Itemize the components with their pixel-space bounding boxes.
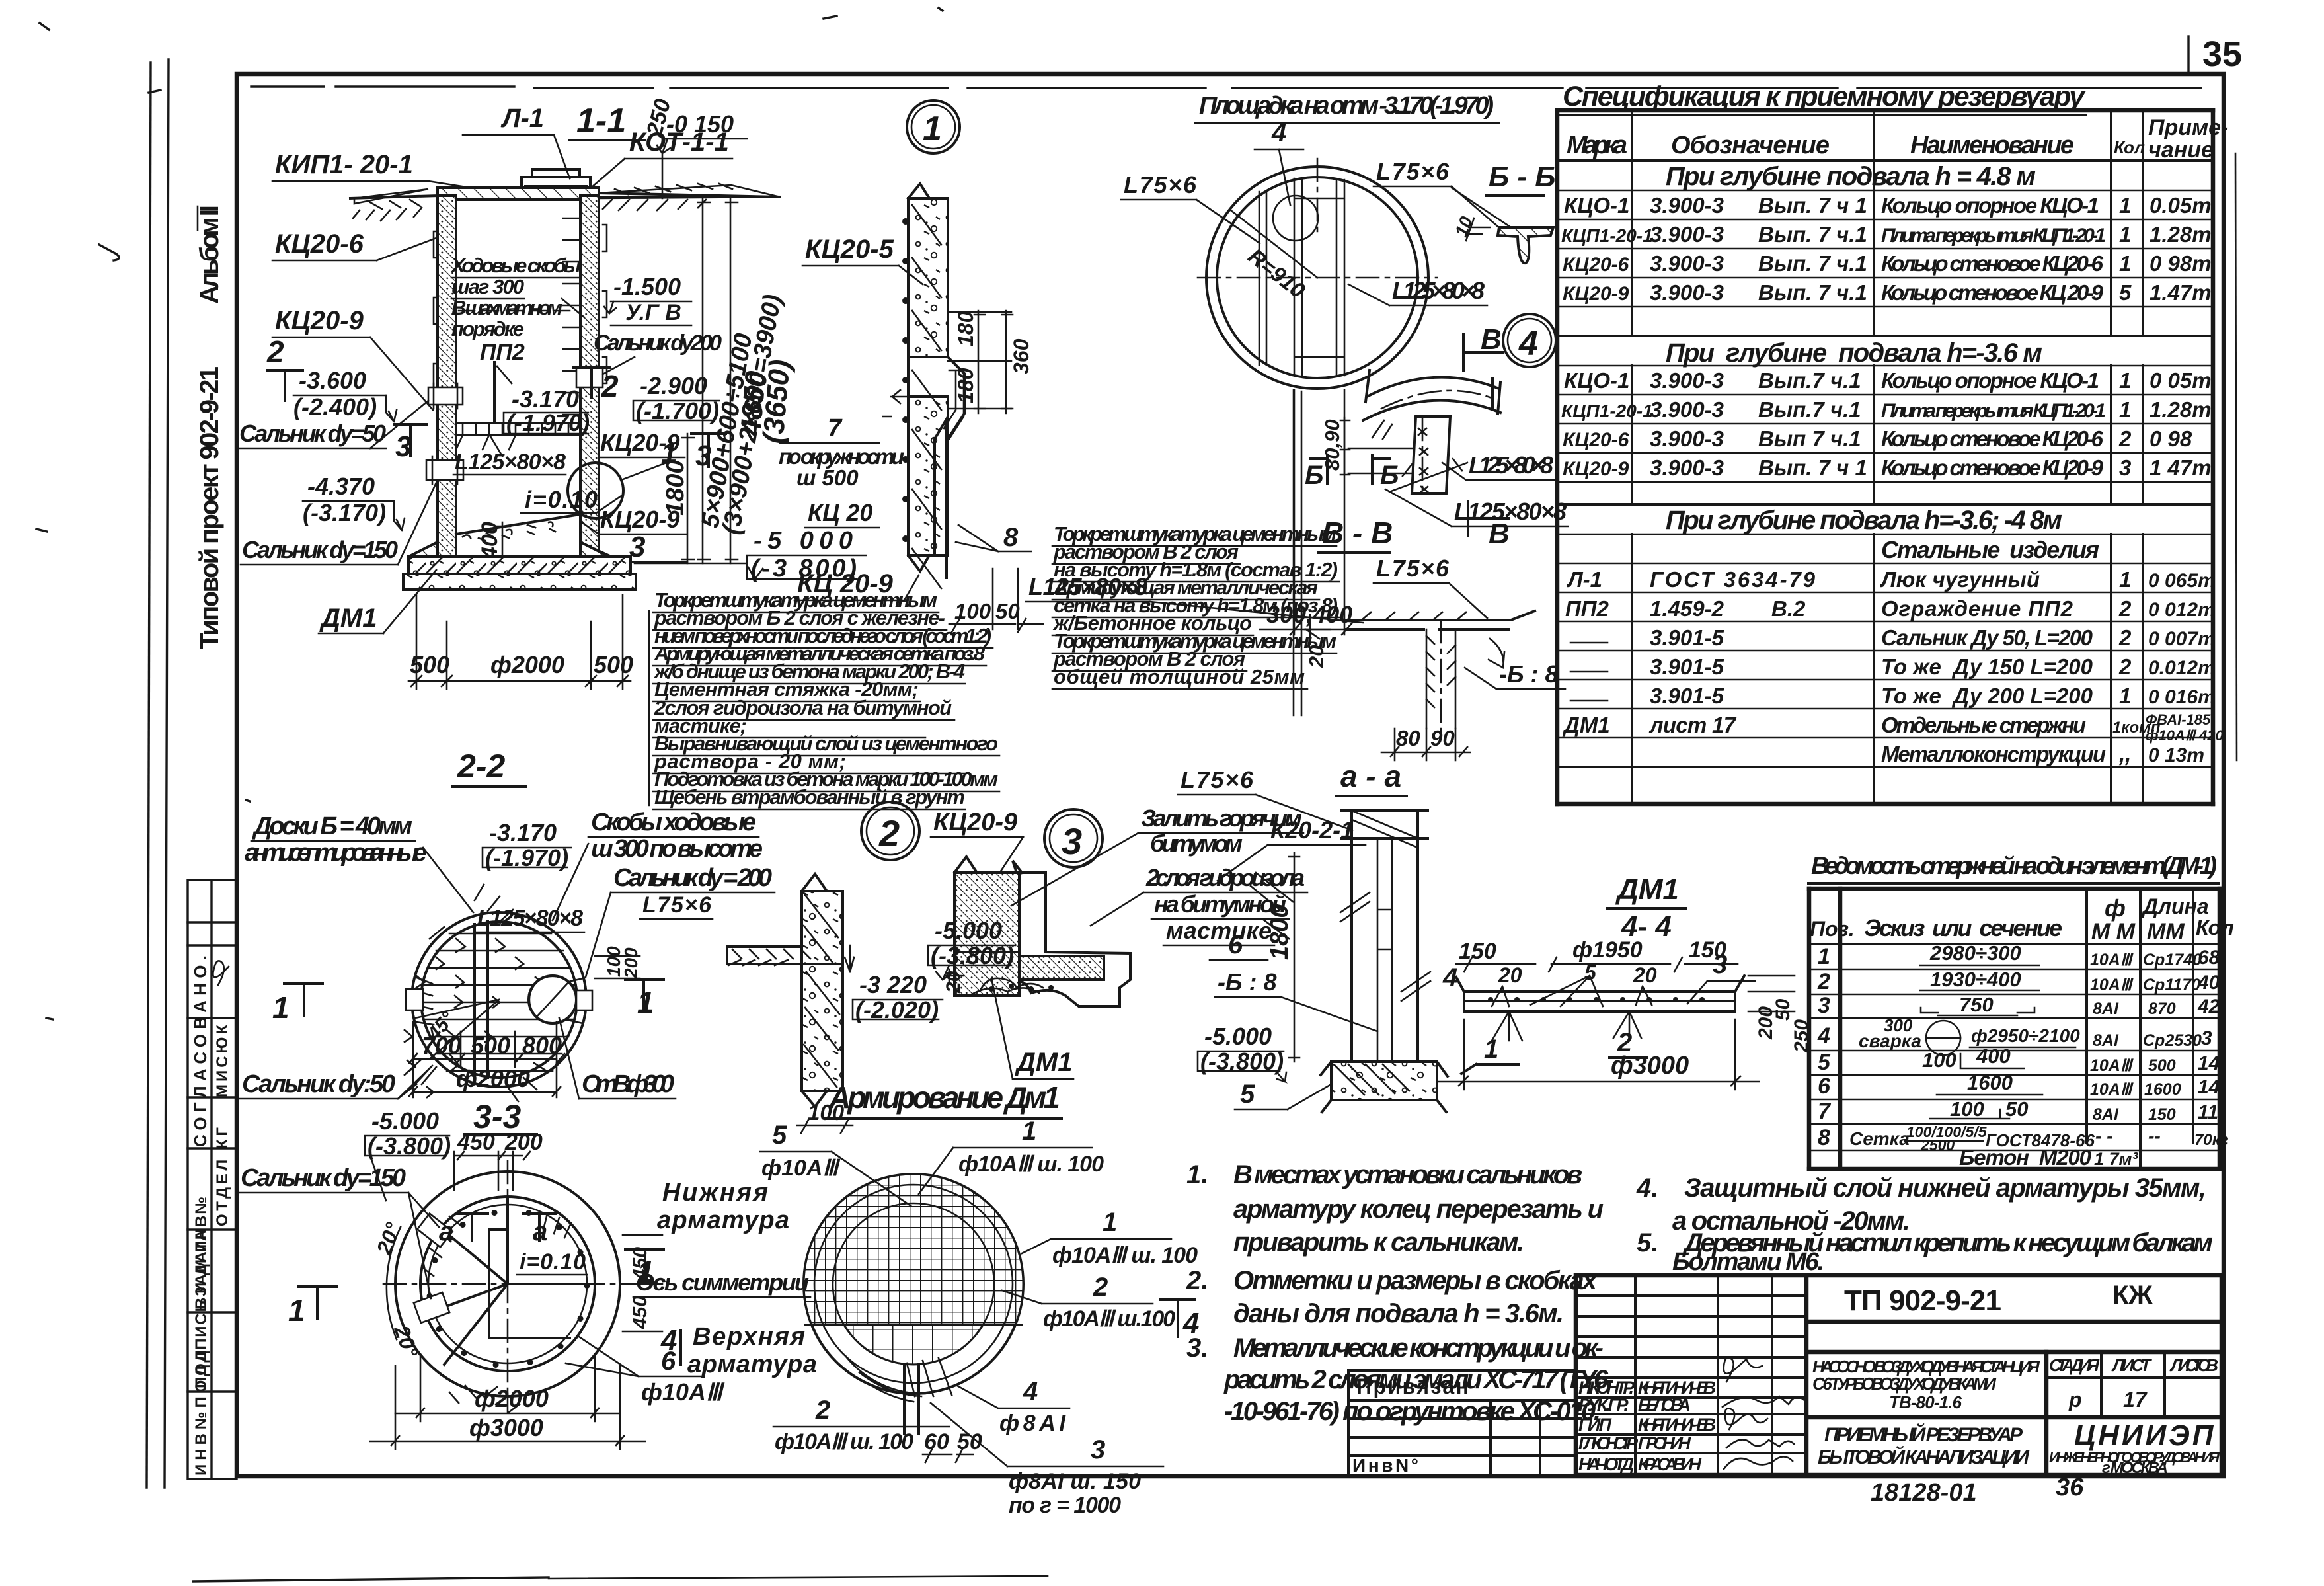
svg-text:М М: М М — [2091, 919, 2136, 944]
bottom concrete — [1331, 1062, 1437, 1100]
svg-text:450: 450 — [457, 1130, 495, 1155]
svg-text:-4.370: -4.370 — [307, 473, 375, 500]
svg-text:Кольцо опорное КЦО-1: Кольцо опорное КЦО-1 — [1881, 193, 2099, 218]
svg-text:арматура: арматура — [687, 1351, 817, 1378]
svg-text:Армирование Дм1: Армирование Дм1 — [828, 1080, 1060, 1115]
svg-text:5: 5 — [1818, 1050, 1831, 1075]
svg-text:Наименование: Наименование — [1910, 132, 2074, 159]
svg-text:КЦ 20: КЦ 20 — [808, 499, 872, 526]
svg-text:2: 2 — [1093, 1273, 1108, 1302]
svg-text:450: 450 — [629, 1296, 651, 1329]
svg-text:4: 4 — [660, 1324, 677, 1357]
glass diag marks — [1251, 873, 1293, 939]
svg-text:3: 3 — [395, 430, 411, 463]
ПП2 ladder post — [493, 362, 496, 423]
svg-text:,,: ,, — [2118, 742, 2131, 766]
svg-text:БЫТОВОЙ КАНАЛИЗАЦИИ: БЫТОВОЙ КАНАЛИЗАЦИИ — [1818, 1445, 2030, 1468]
svg-text:Кольцо стеновое КЦ20-6: Кольцо стеновое КЦ20-6 — [1881, 426, 2104, 451]
svg-text:10АⅢ: 10АⅢ — [2090, 976, 2134, 994]
detail callout circle 1 — [907, 100, 960, 153]
svg-text:i=0.10: i=0.10 — [520, 1249, 586, 1275]
wire: a-a trace lines below circle — [1293, 390, 1295, 715]
svg-text:5: 5 — [2119, 280, 2132, 305]
svg-text:ф1950: ф1950 — [1572, 937, 1643, 963]
svg-text:общей толщиной 25мм: общей толщиной 25мм — [1054, 665, 1305, 688]
svg-text:5: 5 — [1584, 961, 1597, 984]
svg-text:1.: 1. — [1186, 1160, 1208, 1189]
svg-text:10АⅢ: 10АⅢ — [2090, 1080, 2134, 1099]
svg-text:0.012т: 0.012т — [2148, 657, 2216, 679]
svg-text:Вып. 7 ч.1: Вып. 7 ч.1 — [1758, 280, 1867, 305]
platform at -3.170 — [456, 423, 580, 435]
svg-text:ТП 902-9-21: ТП 902-9-21 — [1844, 1285, 2003, 1317]
svg-text:Ходовые скобы: Ходовые скобы — [450, 254, 581, 277]
svg-text:В: В — [1489, 518, 1510, 550]
svg-text:-3 220: -3 220 — [859, 971, 927, 998]
svg-text:2слоя гидроизола: 2слоя гидроизола — [1145, 864, 1305, 891]
svg-text:500: 500 — [2148, 1056, 2176, 1075]
svg-text:КЖ: КЖ — [2112, 1281, 2153, 1310]
svg-text:1: 1 — [1484, 1035, 1498, 1064]
svg-text:Вып 7 ч.1: Вып 7 ч.1 — [1758, 426, 1861, 451]
svg-text:1: 1 — [2119, 251, 2131, 276]
dims right 100 200 — [595, 955, 640, 957]
svg-text:КЦО-1: КЦО-1 — [1564, 193, 1629, 218]
svg-text:2-2: 2-2 — [457, 748, 505, 785]
svg-text:ф10АⅢ ш. 100: ф10АⅢ ш. 100 — [775, 1429, 913, 1454]
svg-text:5.: 5. — [1637, 1228, 1658, 1257]
svg-text:3: 3 — [1091, 1435, 1105, 1464]
svg-text:При глубине подвала h = 4.8 м: При глубине подвала h = 4.8 м — [1666, 162, 2036, 191]
svg-text:То же Ду 150 L=200: То же Ду 150 L=200 — [1881, 654, 2093, 679]
svg-text:по г = 1000: по г = 1000 — [1009, 1493, 1121, 1518]
svg-text:Сальник dy=150: Сальник dy=150 — [241, 1164, 406, 1192]
callout circle 4 — [1503, 314, 1556, 367]
hole ОтВ ф300 — [529, 976, 576, 1023]
radial lines and pit — [428, 1224, 508, 1365]
block B verticals — [1632, 366, 2143, 504]
svg-text:КЦО-1: КЦО-1 — [1564, 368, 1629, 393]
dims below — [412, 1022, 414, 1097]
lower inner circle + coarse mesh — [844, 1325, 983, 1365]
triangle supports + leaders — [1492, 1011, 1641, 1041]
svg-text:60: 60 — [924, 1429, 949, 1454]
svg-text:Вып.7 ч.1: Вып.7 ч.1 — [1758, 368, 1861, 393]
svg-text:ОтВ.ф300: ОтВ.ф300 — [582, 1070, 674, 1098]
svg-text:ФВАΙ-185: ФВАΙ-185 — [2146, 711, 2211, 728]
svg-text:ш 500: ш 500 — [796, 465, 859, 490]
svg-text:СТАДИЯ: СТАДИЯ — [2049, 1355, 2100, 1375]
svg-text:Кол: Кол — [2196, 916, 2234, 939]
svg-text:антисептированные: антисептированные — [245, 839, 427, 867]
svg-text:0 016т: 0 016т — [2148, 686, 2216, 708]
svg-text:Плита перекрытия КЦП1-20-1: Плита перекрытия КЦП1-20-1 — [1881, 225, 2106, 247]
svg-text:14: 14 — [2198, 1076, 2220, 1098]
scan specks — [36, 8, 943, 1019]
svg-text:500: 500 — [410, 651, 449, 678]
svg-text:Л-1: Л-1 — [500, 104, 544, 133]
R=910 radius — [1231, 210, 1317, 278]
shelf slab left — [727, 947, 802, 964]
svg-text:ф2000: ф2000 — [456, 1065, 530, 1092]
svg-text:1: 1 — [1022, 1117, 1036, 1146]
upper mesh half — [804, 1174, 1023, 1325]
svg-text:Сальник dy=50: Сальник dy=50 — [239, 420, 386, 447]
svg-text:ГОСТ 3634-79: ГОСТ 3634-79 — [1650, 567, 1816, 592]
left signature grid — [1576, 1275, 1806, 1475]
svg-text:ИнвN°: ИнвN° — [1352, 1455, 1418, 1476]
svg-text:7: 7 — [1818, 1099, 1832, 1124]
svg-text:-2.900: -2.900 — [640, 372, 707, 399]
svg-text:ф3000: ф3000 — [1611, 1052, 1689, 1080]
svg-text:При глубине подвала h=-3.6 м: При глубине подвала h=-3.6 м — [1666, 338, 2042, 368]
svg-text:3.900-3: 3.900-3 — [1650, 193, 1724, 218]
svg-text:Марка: Марка — [1567, 132, 1627, 159]
svg-text:Сальник Ду 50, L=200: Сальник Ду 50, L=200 — [1881, 625, 2093, 650]
svg-text:1: 1 — [2119, 368, 2131, 393]
svg-text:1 47т: 1 47т — [2150, 456, 2212, 480]
svg-text:Металлоконструкции: Металлоконструкции — [1881, 742, 2106, 766]
callout circle 3 — [1044, 809, 1103, 867]
svg-text:-1.500: -1.500 — [613, 273, 681, 300]
page number 35 — [2187, 36, 2189, 73]
svg-text:360: 360 — [1009, 338, 1033, 374]
svg-text:-5.000: -5.000 — [371, 1107, 439, 1134]
svg-text:1800: 1800 — [662, 459, 689, 516]
svg-text:Кольцо опорное КЦО-1: Кольцо опорное КЦО-1 — [1881, 368, 2099, 393]
svg-text:8АΙ: 8АΙ — [2093, 1000, 2119, 1018]
svg-text:р: р — [2068, 1388, 2082, 1411]
svg-text:68: 68 — [2198, 947, 2220, 969]
svg-text:Вып. 7 ч 1: Вып. 7 ч 1 — [1758, 456, 1867, 480]
svg-text:Скобы ходовые: Скобы ходовые — [591, 809, 756, 836]
right rotated dims 200 50 250 — [1748, 975, 1795, 977]
svg-text:-3.170: -3.170 — [512, 385, 579, 413]
стадия лист листов — [2046, 1352, 2222, 1417]
svg-text:1: 1 — [288, 1293, 305, 1328]
svg-text:ЛИСТ: ЛИСТ — [2111, 1355, 2152, 1375]
svg-text:6: 6 — [1818, 1074, 1831, 1099]
svg-text:КНЯГИНИЧЕВ: КНЯГИНИЧЕВ — [1638, 1415, 1716, 1435]
ladder rungs — [563, 218, 579, 415]
header verticals — [1557, 110, 2213, 336]
svg-text:КЦП1-20-1: КЦП1-20-1 — [1561, 225, 1653, 246]
tall wall element — [1352, 811, 1418, 1062]
ground line + hatch left — [350, 196, 438, 198]
svg-text:Ось симметрии: Ось симметрии — [636, 1269, 809, 1296]
svg-text:(-3.170): (-3.170) — [303, 499, 386, 526]
svg-text:-Б : 8: -Б : 8 — [1499, 660, 1559, 688]
svg-text:В: В — [1481, 323, 1502, 356]
manhole cover — [522, 169, 590, 186]
svg-text:мастике: мастике — [1166, 917, 1272, 944]
svg-text:1.47т: 1.47т — [2150, 280, 2212, 305]
joint bracket mid — [944, 370, 964, 439]
svg-text:6: 6 — [1228, 930, 1243, 959]
svg-text:20: 20 — [943, 971, 964, 994]
svg-text:ф10АⅢ ш. 100: ф10АⅢ ш. 100 — [958, 1152, 1104, 1177]
dim 500 ф2000 500 — [416, 595, 418, 689]
svg-text:ф10АⅢ: ф10АⅢ — [641, 1378, 725, 1406]
svg-text:Обозначение: Обозначение — [1671, 132, 1830, 159]
svg-text:50: 50 — [2005, 1097, 2028, 1121]
svg-text:Болтами М6.: Болтами М6. — [1672, 1248, 1824, 1276]
scan edge line right of table — [2235, 153, 2237, 760]
svg-text:2: 2 — [878, 813, 900, 854]
vertical dim lines — [702, 198, 704, 563]
svg-text:4: 4 — [1023, 1377, 1038, 1406]
svg-text:50: 50 — [1772, 998, 1794, 1021]
band C — [1557, 503, 2213, 506]
svg-text:L125×80×8: L125×80×8 — [1392, 277, 1485, 304]
svg-text:арматура: арматура — [657, 1207, 789, 1234]
svg-text:200: 200 — [504, 1130, 543, 1155]
svg-text:5: 5 — [1240, 1080, 1255, 1109]
svg-text:Сетка: Сетка — [1849, 1129, 1910, 1149]
svg-text:ГЛ.КОНСТР: ГЛ.КОНСТР — [1578, 1433, 1639, 1453]
svg-text:400: 400 — [1976, 1045, 2011, 1068]
privyazan box — [1348, 1370, 1576, 1475]
svg-text:ф10АⅢ ш. 100: ф10АⅢ ш. 100 — [1052, 1243, 1198, 1268]
svg-text:К20-2-1: К20-2-1 — [1270, 816, 1354, 844]
svg-text:8: 8 — [1818, 1125, 1830, 1150]
svg-text:-3.600: -3.600 — [299, 367, 366, 394]
svg-text:5: 5 — [772, 1121, 787, 1150]
bottom slab ДМ1 — [408, 542, 609, 557]
svg-text:а: а — [439, 1217, 453, 1246]
gravel pocket — [972, 978, 1043, 994]
svg-text:-Б : 8: -Б : 8 — [1218, 969, 1277, 996]
floor slope — [456, 514, 580, 534]
svg-text:0 05т: 0 05т — [2150, 368, 2212, 393]
svg-text:То же Ду 200 L=200: То же Ду 200 L=200 — [1881, 684, 2093, 708]
hatch on plate top — [1362, 612, 1466, 620]
svg-text:КЦП1-20-1: КЦП1-20-1 — [1561, 401, 1653, 421]
signature squiggle — [213, 961, 229, 985]
svg-text:L125×80×8: L125×80×8 — [455, 450, 566, 475]
svg-text:ТВ-80-1.6: ТВ-80-1.6 — [1889, 1392, 1962, 1412]
svg-text:КЦ20-6: КЦ20-6 — [275, 229, 364, 258]
svg-text:Бетон М200: Бетон М200 — [1959, 1145, 2092, 1170]
svg-text:ф: ф — [2105, 894, 2126, 922]
signatures squiggles — [1723, 1358, 1804, 1469]
svg-text:1: 1 — [1818, 944, 1830, 969]
svg-text:0 065т: 0 065т — [2148, 570, 2216, 592]
section marks 1 — [299, 1287, 337, 1318]
svg-text:1: 1 — [2119, 567, 2131, 592]
dowel dots left edge — [902, 218, 909, 542]
svg-text:У.Г В: У.Г В — [625, 300, 681, 325]
outer circle — [804, 1174, 1023, 1394]
svg-text:Отметки и размеры в скобках: Отметки и размеры в скобках — [1233, 1266, 1598, 1295]
svg-text:ф10АⅢ: ф10АⅢ — [761, 1156, 841, 1181]
svg-text:При глубине подвала h=-3.6; -4: При глубине подвала h=-3.6; -4 8м — [1666, 506, 2062, 535]
svg-text:3.901-5: 3.901-5 — [1650, 654, 1724, 679]
bottom arcs (bars 3,4) — [846, 1357, 925, 1402]
plan circle — [412, 912, 586, 1087]
svg-text:L125×80×8: L125×80×8 — [1454, 498, 1567, 525]
svg-text:1.459-2: 1.459-2 — [1650, 596, 1724, 621]
svg-text:1: 1 — [272, 990, 290, 1025]
bar hooks above slab — [1492, 976, 1707, 1006]
svg-text:4: 4 — [1271, 118, 1286, 147]
svg-text:4: 4 — [1518, 325, 1538, 363]
svg-text:L75×6: L75×6 — [1376, 555, 1450, 582]
svg-text:Кол: Кол — [2114, 138, 2145, 157]
svg-text:L125×80×8: L125×80×8 — [1028, 573, 1147, 600]
left wall — [438, 196, 456, 563]
svg-text:Длина: Длина — [2141, 894, 2209, 918]
svg-text:42: 42 — [2197, 996, 2220, 1017]
dim 300,400 — [1294, 390, 1296, 635]
svg-text:1: 1 — [2119, 193, 2131, 218]
svg-text:2980÷300: 2980÷300 — [1929, 941, 2021, 965]
svg-text:ф10АⅢ 420: ф10АⅢ 420 — [2146, 727, 2224, 744]
450 450 dims right — [623, 1234, 662, 1236]
svg-text:а - а: а - а — [1340, 759, 1401, 793]
svg-text:1930÷400: 1930÷400 — [1930, 968, 2021, 991]
svg-text:35: 35 — [2202, 34, 2242, 74]
stamp column boxes — [188, 880, 237, 1479]
svg-text:11: 11 — [2198, 1101, 2218, 1123]
svg-text:ОТДЕЛ КГ: ОТДЕЛ КГ — [213, 1127, 231, 1226]
svg-text:1: 1 — [1103, 1208, 1117, 1237]
svg-text:1800: 1800 — [1266, 904, 1294, 960]
wire: sheet binding edge lines — [147, 63, 151, 1487]
svg-text:Стальные изделия: Стальные изделия — [1881, 536, 2099, 563]
svg-text:400: 400 — [477, 522, 502, 560]
svg-text:2500: 2500 — [1920, 1136, 1955, 1154]
svg-text:80: 80 — [1396, 726, 1420, 750]
center cross dashdot — [383, 1161, 635, 1412]
wall strip detail 1 — [908, 184, 929, 198]
svg-text:Спецификация к приемному резер: Спецификация к приемному резервуару — [1563, 81, 2086, 112]
partial bottom scan line — [193, 1577, 549, 1581]
В section mark top — [1463, 334, 1503, 371]
svg-text:0.05т: 0.05т — [2150, 193, 2212, 218]
svg-text:1: 1 — [637, 985, 654, 1019]
svg-text:L75×6: L75×6 — [1124, 171, 1197, 198]
svg-text:700: 700 — [422, 1032, 461, 1059]
svg-text:2: 2 — [2118, 426, 2132, 451]
svg-text:шаг 300: шаг 300 — [451, 275, 524, 298]
svg-text:КЦ20-9: КЦ20-9 — [275, 306, 364, 335]
ground line + hatch right — [599, 193, 780, 197]
svg-text:180: 180 — [954, 368, 978, 403]
svg-text:Верхняя: Верхняя — [693, 1323, 805, 1351]
curved slab band — [1363, 377, 1500, 420]
plan circle — [1206, 167, 1428, 389]
svg-text:Сальник dy = 200: Сальник dy = 200 — [613, 864, 772, 892]
walkway chords — [475, 922, 488, 1078]
svg-text:ф2000: ф2000 — [475, 1385, 549, 1412]
svg-text:1: 1 — [2119, 222, 2131, 247]
svg-text:2.: 2. — [1186, 1266, 1208, 1295]
svg-text:1.28т: 1.28т — [2150, 222, 2212, 247]
walkway chords — [1294, 178, 1344, 376]
svg-text:0 012т: 0 012т — [2148, 599, 2216, 621]
flanges — [406, 989, 423, 1010]
svg-text:В.2: В.2 — [1771, 596, 1806, 621]
svg-text:500: 500 — [594, 651, 633, 678]
svg-text:КЦ20-6: КЦ20-6 — [1563, 429, 1629, 451]
svg-text:Защитный слой нижней арматуры: Защитный слой нижней арматуры 35мм, — [1684, 1173, 2206, 1203]
svg-text:КЦ20-5: КЦ20-5 — [805, 235, 894, 264]
svg-text:ПОДПИСЬ И ДАТА: ПОДПИСЬ И ДАТА — [192, 1230, 210, 1388]
1800 dim — [1294, 853, 1296, 1062]
svg-text:L75×6: L75×6 — [642, 892, 712, 918]
svg-text:4: 4 — [1817, 1023, 1830, 1049]
svg-text:Приме-: Приме- — [2148, 115, 2228, 140]
svg-text:70кг: 70кг — [2194, 1131, 2229, 1149]
ring concrete dots — [423, 1214, 571, 1412]
svg-text:Доски Б = 40мм: Доски Б = 40мм — [252, 813, 412, 840]
svg-text:0 98т: 0 98т — [2150, 251, 2212, 276]
svg-text:2: 2 — [815, 1396, 830, 1425]
svg-text:1.28т: 1.28т — [2150, 397, 2212, 422]
svg-text:150: 150 — [2148, 1105, 2176, 1124]
vertical post with x marks — [1412, 416, 1450, 493]
svg-text:БЕЛОВА: БЕЛОВА — [1638, 1395, 1691, 1415]
right wall — [580, 196, 599, 563]
callout circle 2 — [861, 802, 919, 860]
svg-text:Люк чугунный: Люк чугунный — [1880, 567, 2040, 592]
svg-text:20: 20 — [1633, 963, 1657, 987]
svg-text:ДМ1: ДМ1 — [1615, 873, 1679, 906]
svg-text:Сальник dy=150: Сальник dy=150 — [242, 536, 398, 563]
svg-text:--: -- — [2148, 1126, 2161, 1146]
svg-text:750: 750 — [1959, 993, 1994, 1016]
svg-text:Щебень втрамбованный в грунт: Щебень втрамбованный в грунт — [654, 785, 965, 809]
svg-text:2: 2 — [2118, 654, 2132, 679]
svg-text:ДМ1: ДМ1 — [319, 604, 377, 633]
svg-text:Отдельные стержни: Отдельные стержни — [1881, 713, 2086, 737]
svg-text:3: 3 — [1713, 950, 1727, 979]
svg-text:36: 36 — [2056, 1474, 2084, 1501]
svg-text:даны для подвала h = 3.6м.: даны для подвала h = 3.6м. — [1233, 1299, 1564, 1328]
section marks 1 — [284, 984, 323, 1015]
top slab (КЦП1-20-1) — [438, 188, 599, 200]
svg-text:L125×80×8: L125×80×8 — [1469, 452, 1553, 479]
svg-text:Ср1740: Ср1740 — [2143, 951, 2202, 969]
lower wall strip — [802, 964, 843, 1091]
svg-text:8АΙ: 8АΙ — [2093, 1031, 2119, 1050]
svg-text:ИНВ№ПОДЛ: ИНВ№ПОДЛ — [192, 1350, 210, 1476]
rough inner top line — [251, 87, 2201, 88]
svg-text:С 6 ТУРБОВОЗДУХОДУВКАМИ: С 6 ТУРБОВОЗДУХОДУВКАМИ — [1812, 1374, 1997, 1394]
gland fitting dy50 left wall — [428, 387, 463, 405]
svg-text:ф2950÷2100: ф2950÷2100 — [1971, 1025, 2080, 1046]
svg-text:-0 150: -0 150 — [666, 110, 734, 138]
svg-text:ПРИЕМНЫЙ РЕЗЕРВУАР: ПРИЕМНЫЙ РЕЗЕРВУАР — [1824, 1423, 2023, 1446]
deck planks (herringbone) — [405, 933, 574, 1097]
svg-text:КЦ20-9: КЦ20-9 — [1563, 283, 1629, 305]
svg-text:г МОСКВА: г МОСКВА — [2102, 1459, 2168, 1477]
svg-text:1 7м³: 1 7м³ — [2094, 1149, 2139, 1169]
svg-text:Альбом II: Альбом II — [195, 205, 224, 304]
svg-text:3.900-3: 3.900-3 — [1650, 456, 1724, 480]
svg-text:ф8АΙ ш. 150: ф8АΙ ш. 150 — [1009, 1469, 1141, 1494]
svg-text:ЦНИИЭП: ЦНИИЭП — [2074, 1419, 2216, 1452]
svg-text:1-1: 1-1 — [576, 102, 626, 140]
svg-text:Поз.: Поз. — [1810, 917, 1855, 941]
В-В weld tee — [1346, 611, 1535, 629]
svg-text:0 13т: 0 13т — [2148, 744, 2204, 766]
svg-text:ГИП: ГИП — [1578, 1415, 1612, 1435]
svg-text:3.901-5: 3.901-5 — [1650, 684, 1724, 708]
svg-text:КЦ20-9: КЦ20-9 — [933, 809, 1017, 836]
svg-text:КЦ20-6: КЦ20-6 — [1563, 254, 1629, 276]
